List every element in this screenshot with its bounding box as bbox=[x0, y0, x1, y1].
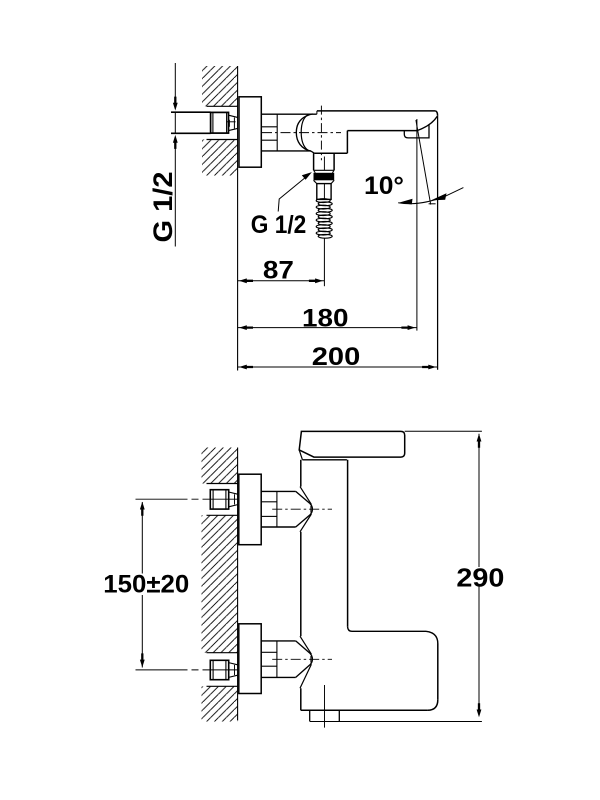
svg-text:180: 180 bbox=[302, 304, 349, 332]
svg-text:150±20: 150±20 bbox=[103, 571, 189, 599]
svg-text:87: 87 bbox=[263, 256, 294, 284]
svg-text:10°: 10° bbox=[364, 172, 404, 200]
svg-text:G 1/2: G 1/2 bbox=[148, 172, 178, 243]
svg-text:290: 290 bbox=[456, 563, 504, 593]
svg-text:G 1/2: G 1/2 bbox=[251, 211, 307, 239]
svg-text:200: 200 bbox=[312, 343, 361, 371]
